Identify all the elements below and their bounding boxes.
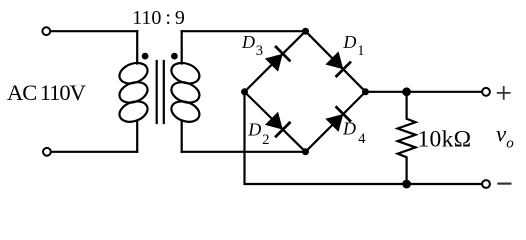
wire: bottom-left terminal to transformer primary bbox=[52, 151, 137, 153]
transformer T1 primary winding bbox=[117, 31, 151, 152]
wire: bridge arm left-to-top bbox=[245, 31, 306, 92]
wire: bridge arm left-to-bottom bbox=[245, 92, 306, 152]
label: plus sign bbox=[498, 87, 510, 99]
wire: bridge arm top-to-right bbox=[306, 31, 366, 92]
svg-text:vo: vo bbox=[496, 122, 514, 152]
resistor R1 10k ohm bbox=[398, 92, 416, 184]
diode D4 bbox=[325, 107, 350, 132]
svg-text:D: D bbox=[241, 32, 255, 52]
wire: bridge left vertex down and along bottom to - output terminal bbox=[245, 92, 482, 184]
node: bridge right junction bbox=[362, 88, 369, 95]
terminal: AC input bottom-left bbox=[43, 148, 51, 156]
svg-text:AC 110V: AC 110V bbox=[7, 80, 86, 105]
transformer polarity dot (primary) bbox=[142, 53, 149, 60]
svg-text:2: 2 bbox=[262, 132, 269, 148]
node: resistor top junction bbox=[402, 87, 411, 96]
transformer polarity dot (secondary) bbox=[171, 53, 178, 60]
svg-text:D: D bbox=[247, 120, 261, 140]
wire: secondary bottom to bridge bottom node bbox=[182, 151, 306, 153]
node: bridge top junction bbox=[302, 28, 309, 35]
diode D2 bbox=[265, 112, 290, 137]
terminal: output + bbox=[482, 88, 490, 96]
node: bridge left junction bbox=[241, 88, 248, 95]
svg-text:110 : 9: 110 : 9 bbox=[132, 7, 185, 29]
wire: secondary top to bridge top node bbox=[182, 30, 306, 32]
node: bridge bottom junction bbox=[302, 148, 309, 155]
svg-text:D: D bbox=[342, 32, 356, 52]
svg-text:D: D bbox=[342, 119, 356, 139]
terminal: AC input top-left bbox=[42, 27, 50, 35]
diode D3 bbox=[265, 47, 290, 72]
terminal: output - bbox=[482, 180, 490, 188]
node: resistor bottom junction bbox=[402, 180, 411, 189]
transformer core bbox=[157, 61, 164, 123]
svg-text:1: 1 bbox=[357, 43, 364, 59]
wire: bridge right vertex to + output terminal bbox=[366, 91, 482, 93]
wire: top-left terminal to transformer primary bbox=[51, 30, 137, 32]
label: minus sign bbox=[498, 183, 510, 185]
svg-text:10kΩ: 10kΩ bbox=[418, 126, 472, 152]
transformer T1 secondary winding bbox=[169, 31, 203, 152]
wire: bridge arm bottom-to-right bbox=[306, 92, 366, 152]
svg-text:4: 4 bbox=[358, 131, 366, 147]
svg-text:3: 3 bbox=[256, 43, 263, 59]
diode D1 bbox=[325, 51, 350, 76]
